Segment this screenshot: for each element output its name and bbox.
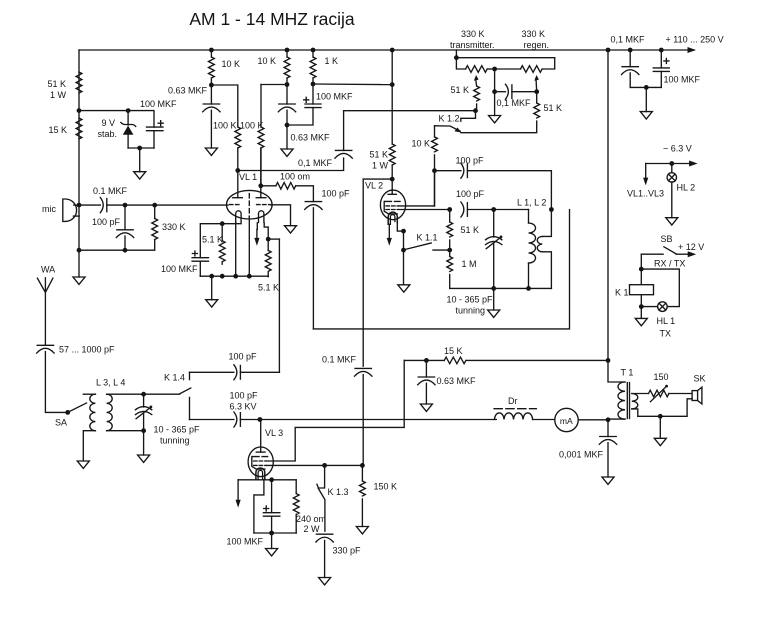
svg-text:+ 12 V: + 12 V [678,242,704,252]
node VL2 plate [390,177,395,182]
capacitor 0.63 MKF (screen) [418,360,435,404]
wire VL3 filament arrow [236,480,241,508]
capacitor 0.1 MKF (VL2 out) [355,368,372,465]
capacitor 0,1 MKF (B+ filter) [622,50,639,87]
svg-text:100 pF: 100 pF [229,352,258,362]
resistor 10K (K1.2 pole) [432,126,438,171]
wire sub-rail pots [456,50,554,58]
potentiometer 330K transmitter [456,58,494,86]
wire VL1 cathode top bus [200,224,241,258]
wire K1.4 lower throw [190,419,234,421]
svg-text:0,1 MKF: 0,1 MKF [298,158,333,168]
svg-text:100 MKF: 100 MKF [140,99,177,109]
node L4 bottom / trimmer [141,428,146,433]
tube VL2 cathode [388,212,397,240]
svg-text:1 W: 1 W [50,90,67,100]
wire K1.4 upper throw [190,371,234,373]
tube VL1 center shield dashed [248,194,250,217]
svg-text:VL 3: VL 3 [265,428,283,438]
wire VL1 cathode bottom bus [200,275,268,277]
ground tank trimmer [488,288,500,317]
tube VL1 envelope [227,190,273,219]
node B+ filter ground [644,85,649,90]
node rail 10K#2 [285,48,290,53]
wire riser to VL1 cathode net [278,239,280,372]
wire 1K node to VL2 load [313,83,392,86]
ground mic rail [73,250,85,284]
svg-text:330 K: 330 K [162,222,186,232]
svg-text:Dr: Dr [508,396,518,406]
svg-text:mA: mA [560,416,573,426]
wire VL3 plate row [260,419,496,421]
node VL3 grid top [258,417,263,422]
node HL2 [669,161,674,166]
tube VL2 grid cage [384,201,400,214]
capacitor 0.63 MKF #2 [278,85,295,150]
node bottom left [77,248,82,253]
svg-text:AM 1 - 14 MHZ racija: AM 1 - 14 MHZ racija [189,9,355,29]
svg-text:stab.: stab. [97,129,117,139]
svg-text:1 K: 1 K [325,56,339,66]
svg-text:tunning: tunning [456,306,486,316]
svg-text:100 K: 100 K [213,121,237,131]
wire VL2 grid1 to 10K [399,171,435,206]
ground HL2 [666,218,678,225]
svg-text:HL 2: HL 2 [677,183,696,193]
node K1.3 top [322,463,327,468]
svg-text:51 K: 51 K [544,103,563,113]
switch K 1.4 [180,372,191,419]
node 5.1K#1 top [220,221,225,226]
svg-text:VL 2: VL 2 [365,181,383,191]
svg-text:5.1 K: 5.1 K [258,283,279,293]
node VL1 right anode [258,183,263,188]
svg-text:1 M: 1 M [462,259,477,269]
wire right cathode filament arrow [254,223,259,246]
svg-text:VL1..VL3: VL1..VL3 [627,189,664,199]
svg-text:transmitter.: transmitter. [450,40,495,50]
svg-text:2 W: 2 W [304,524,321,534]
wire VL1 right grid to ground [271,205,291,226]
capacitor 330 pF [316,534,333,577]
svg-text:10 - 365 pF: 10 - 365 pF [154,425,201,435]
wire 10K#2 node to 100K#2 [261,84,287,86]
capacitor trimmer 10-365 pF (antenna) [135,394,152,431]
choke Dr [494,409,555,420]
svg-text:0.63 MKF: 0.63 MKF [168,86,208,96]
wire L4 to K1.4 [144,393,180,395]
wire left cathode leg to bus [235,223,237,277]
wire K1 bottom [640,295,642,319]
node 5.1K#2 top [266,237,271,242]
wire VL2 cathode to K1.1 [397,223,403,231]
svg-text:240 om: 240 om [296,514,326,524]
wire B+ filter bottom [630,86,661,88]
resistor 100K #1 [235,127,241,171]
svg-text:330 pF: 330 pF [333,546,362,556]
node K1.1 pole [401,248,406,253]
speaker SK [638,387,702,416]
wire VL1 left grid [155,204,228,206]
svg-text:K 1.4: K 1.4 [164,373,185,383]
wire center shield to bus [248,217,250,277]
svg-text:100 K: 100 K [240,121,264,131]
tube VL1 right anode [256,148,266,198]
node sub-rail [454,55,459,60]
capacitor 0,1 MKF (pots) [495,84,537,99]
svg-text:0.63 MKF: 0.63 MKF [291,133,331,143]
svg-text:SB: SB [661,234,673,244]
svg-text:0.63 MKF: 0.63 MKF [437,376,477,386]
capacitor 100 MKF (VL1 cathode) [192,251,208,276]
resistor 10K #2 [284,50,290,85]
tube VL3 grid cage [252,457,268,470]
svg-text:0,1 MKF: 0,1 MKF [611,35,646,45]
svg-text:mic: mic [42,204,56,214]
transformer T1 primary [608,382,625,419]
node rail 100MKF [659,48,664,53]
wire 0,1MKF to K1.2 node [344,110,476,112]
wire VL2 filament arrow [387,238,392,246]
svg-text:0.1 MKF: 0.1 MKF [93,186,128,196]
tube VL3 cathode [256,468,265,480]
capacitor trimmer 10-365 pF (tank) [486,210,503,289]
node trimmer bottom [491,286,496,291]
svg-text:~ 6.3 V: ~ 6.3 V [663,144,692,154]
ground VL1 cathode bus [206,276,218,307]
svg-text:10 K: 10 K [257,56,276,66]
switch SA [65,410,70,415]
wire zener/cap bottom [128,147,154,149]
resistor 150K [360,465,366,526]
tube VL1 left cathode [236,211,241,223]
switch K 1.2 [435,111,476,133]
svg-text:100 pF: 100 pF [456,189,485,199]
wire +V column [608,50,625,382]
resistor 10K #1 [208,50,214,85]
capacitor 100 MKF (electrolytic, 1K node) [287,84,321,125]
node 100pF top [123,203,128,208]
wire left rail x=79 [78,50,80,250]
wire feedback return to tank [313,210,569,329]
svg-text:10 K: 10 K [411,139,430,149]
wire right cathode to 5.1K#2 [264,223,268,251]
svg-text:57 ... 1000 pF: 57 ... 1000 pF [59,345,115,355]
svg-text:5.1 K: 5.1 K [202,235,223,245]
wire K1.1 throw [433,249,450,251]
node 1K bottom [311,82,316,87]
svg-text:100 MKF: 100 MKF [161,264,198,274]
svg-text:100 MKF: 100 MKF [664,75,701,85]
ground 9V stab [134,148,146,179]
svg-text:regen.: regen. [524,40,550,50]
ground VL3 cathode [266,533,278,556]
node 51K regen top [534,89,539,94]
tube VL1 left anode [233,171,243,198]
wire 6.3V row [646,163,689,165]
node pot1 right [492,67,497,72]
tube VL1 right grid dashes [257,204,270,206]
node main rail arrow +110..250V [688,47,697,53]
resistor 1M [447,250,453,288]
node bus g2 [220,274,225,279]
tube VL2 plate [388,179,396,194]
node bus g1 [209,274,214,279]
wire VL3 grid2 up to 15K node [267,360,405,461]
node T1 primary bottom [606,417,611,422]
node zener top [126,108,131,113]
wire VL3 grid3 to 150K [267,464,363,466]
wire main +V rail y=50 [79,49,694,51]
coil L1 [529,210,536,289]
capacitor 100 pF 6.3 KV [234,412,260,427]
node L4 top / trimmer [141,392,146,397]
capacitor 0,001 MKF [599,420,616,477]
node 10K bottom / 100pF [432,168,437,173]
svg-text:10 - 365 pF: 10 - 365 pF [447,295,494,305]
resistor 51K 1W left [76,72,82,93]
switch K 1.1 blade [405,243,432,250]
wire 15K row [404,359,444,361]
svg-text:150: 150 [654,372,669,382]
svg-text:330 K: 330 K [522,29,546,39]
svg-text:150 K: 150 K [374,482,398,492]
node rail 51K 1W (VL2) [390,48,395,53]
svg-text:100 pF: 100 pF [92,217,121,227]
wire mic bottom return [78,215,80,217]
mic [63,199,79,221]
wire filament feed arrow [643,164,648,186]
tube VL1 right cathode [259,211,264,223]
capacitor 0.1 MKF (mic) [79,198,155,213]
ground 0,001MKF [602,477,614,484]
resistor 100 om [261,183,314,202]
svg-text:100 MKF: 100 MKF [226,537,263,547]
resistor 51K (pot1 wiper) [474,86,480,111]
svg-text:10 K: 10 K [222,59,241,69]
resistor 1K [310,50,316,84]
svg-text:TX: TX [660,329,672,339]
capacitor 100 pF #1 (to tank top) [435,163,552,209]
ground 0,1MKF pots [489,116,501,123]
svg-text:0,1 MKF: 0,1 MKF [497,98,532,108]
resistor 51K (pot2 wiper) [461,92,540,133]
switch SB [641,247,696,257]
svg-text:9 V: 9 V [101,118,115,128]
capacitor 100 MKF (VL3 cathode) [263,480,279,533]
node 0.63MKF top [424,358,429,363]
resistor 15K (VL3 screen feed) [444,357,466,364]
node bus g3 [233,274,238,279]
wire SB down [640,254,642,285]
svg-text:330 K: 330 K [461,29,485,39]
tube VL2 envelope [380,190,405,220]
antenna WA [37,278,53,346]
svg-text:100 pF: 100 pF [456,156,485,166]
wire 10K#1 node to 100K#1 [211,85,237,127]
svg-text:SA: SA [55,418,67,428]
ground B+ filter [640,87,652,119]
wire 9V-stab branch [79,111,154,128]
svg-text:L 3, L 4: L 3, L 4 [96,378,125,388]
wire tank bottom [450,287,552,289]
node K1.2 junction [473,108,478,113]
node 0,1MKF left [492,89,497,94]
wire K1.1 pole [403,231,405,285]
svg-text:51 K: 51 K [450,85,469,95]
capacitor 100 pF (VL1 out) [305,202,322,329]
rheostat 150 [649,385,693,402]
wire 10K node down to VL2 grid1 [434,171,436,206]
ground 0.63MKF#1 [205,148,217,155]
node zener bottom [137,146,142,151]
svg-text:100 pF: 100 pF [322,189,351,199]
ground 0.63MKF#2 [281,149,293,156]
node cathode bottom [269,531,274,536]
svg-text:K 1.3: K 1.3 [328,487,349,497]
svg-text:6.3 KV: 6.3 KV [230,402,257,412]
svg-text:51 K: 51 K [47,79,66,89]
node bus g4 [247,274,252,279]
wire HL1 branch [641,269,679,307]
lamp HL 2 [667,164,676,218]
capacitor 0,1 MKF (VL1-K1.2) [335,111,352,159]
svg-text:K 1.1: K 1.1 [417,233,438,243]
node 100MKF top [269,477,274,482]
node 51K1W top wire [390,82,395,87]
resistor 330K [125,205,158,250]
capacitor 0.63 MKF #1 [203,85,220,148]
ground 150K [356,527,368,534]
switch K 1.3 [317,465,325,531]
svg-text:100 MKF: 100 MKF [316,92,353,102]
coil L4 [107,394,144,431]
svg-text:tunning: tunning [160,436,190,446]
node K1 ground [639,304,644,309]
node mic/rail [77,203,82,208]
node 0.63MKF#2 / 100MKF junction [285,123,290,128]
capacitor 100 pF (mic) [116,205,133,250]
resistor 5.1K #1 [219,224,225,265]
svg-text:0,001 MKF: 0,001 MKF [559,450,604,460]
resistor 15K [76,118,82,139]
node L1 bottom [526,286,531,291]
node rail 0,1MKF [628,48,633,53]
node 6.3V arrow [689,161,698,167]
svg-text:100 om: 100 om [280,172,310,182]
wire VL3 cathode bus [238,479,296,481]
svg-text:+ 110 ... 250 V: + 110 ... 250 V [666,35,724,45]
svg-text:L 1, L 2: L 1, L 2 [517,198,546,208]
svg-text:51 K: 51 K [369,150,388,160]
node tank top right [549,207,554,212]
ground trimmer antenna [138,431,150,463]
tube VL3 envelope [248,447,273,477]
wire pot1 right down [494,69,496,116]
wire cathode step [254,480,264,533]
wire 5.1K#2 node to riser [268,238,279,240]
wire VL2 grid2 to tank [399,209,450,211]
coil L3 [83,394,95,461]
resistor 100K #2 [258,85,264,186]
node tank 51K top [447,207,452,212]
ground K1.1 [398,285,410,292]
coil L2 [537,210,551,289]
capacitor 57...1000 pF [37,345,68,412]
wire VL2 plate to audio takeoff [363,179,392,366]
relay K 1 [630,285,654,295]
node +V 15K [606,358,611,363]
svg-text:15 K: 15 K [48,125,67,135]
wire VL3 cathode bottom [254,532,296,534]
resistor 51K 1W (VL2 load) [389,50,395,179]
capacitor 100 pF (K1.4 up) [234,365,280,380]
svg-text:VL 1: VL 1 [239,172,257,182]
node 10K#1 bottom [209,83,214,88]
svg-text:1 W: 1 W [372,161,389,171]
svg-text:RX / TX: RX / TX [654,259,685,269]
node 100pF bottom [123,248,128,253]
ground 330pF [319,578,331,585]
lamp HL 1 [641,302,667,312]
capacitor 100 MKF (9V stab) [147,121,164,148]
node 10K#2 bottom [285,82,290,87]
tube VL3 top electrode [256,420,265,453]
tube VL1 left grid dashes [230,204,242,206]
svg-text:100 pF: 100 pF [230,391,259,401]
svg-text:K 1.2: K 1.2 [439,114,460,124]
meter mA [555,408,608,431]
ground K1 [635,318,647,325]
diode zener 9V stab [121,111,136,148]
svg-text:WA: WA [41,265,55,275]
svg-text:K 1: K 1 [615,288,629,298]
svg-text:0.1 MKF: 0.1 MKF [322,355,357,365]
node rail 1K [311,48,316,53]
resistor 240 om 2W [293,480,299,533]
svg-text:SK: SK [694,374,706,384]
node RX/TX [639,267,644,272]
svg-text:HL 1: HL 1 [657,316,676,326]
transformer T1 core [627,383,629,419]
node rail 10K#1 [209,48,214,53]
node speaker return [658,414,663,419]
ground speaker [654,416,666,445]
node VL1 left anode [235,168,240,173]
node 330K top [152,203,157,208]
capacitor 100 pF #2 (VL2 grid) [461,202,529,217]
node K1.1 top [401,229,406,234]
wire VL1 plate out y=170.5 [238,158,344,171]
ground 0.63MKF screen [420,404,432,411]
node 150K top [360,463,365,468]
wire 15K to +V column [466,359,608,361]
node junction 51K/15K [77,108,82,113]
node +V rail top [606,48,611,53]
svg-text:15 K: 15 K [444,346,463,356]
capacitor 100 MKF (B+ filter) [653,50,669,87]
transformer T1 secondary [632,394,649,417]
svg-text:51 K: 51 K [461,225,480,235]
resistor 5.1K #2 [265,250,271,276]
svg-text:T 1: T 1 [621,368,634,378]
resistor 51K (tank grid leak) [447,210,453,250]
node trimmer tank top [491,207,496,212]
ground VL1 right grid [285,226,297,233]
node 51K/1M junction [447,248,452,253]
ground L3 [77,461,89,468]
potentiometer 330K regen [495,58,555,92]
